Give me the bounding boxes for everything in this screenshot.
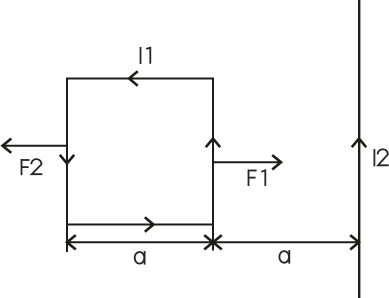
- label F2 (left of loop): [22, 159, 43, 175]
- force arrow F2 (pointing left from loop left side): [4, 145, 67, 147]
- label F1 (right of loop): [249, 170, 266, 187]
- label I1 (above top wire): [141, 47, 151, 64]
- label I2 (right of straight wire): [374, 149, 388, 166]
- dimension arrowhead middle pointing right (at x=213): [204, 235, 213, 249]
- dimension arrowhead right (pointing right at x=359): [350, 235, 359, 249]
- wire: square loop (current loop I1): [67, 79, 213, 225]
- wire: straight conductor I2 (vertical, full height): [358, 0, 360, 298]
- force arrow F1 (pointing right from loop right side): [213, 161, 280, 163]
- current arrow on right wire (pointing up): [206, 139, 220, 148]
- label a (left dimension span): [135, 251, 145, 265]
- current arrow on straight wire I2 (pointing up): [352, 139, 366, 148]
- current arrow on bottom wire (pointing right): [145, 217, 154, 231]
- label a (right dimension span): [279, 250, 289, 264]
- current arrow on top wire (pointing left): [129, 71, 138, 85]
- dimension arrowhead left (pointing left at x=67): [67, 235, 76, 249]
- dimension line (bottom, spanning both spans): [67, 241, 359, 243]
- dimension extender line at x=213: [212, 225, 214, 251]
- current arrow on left wire (pointing down): [60, 155, 74, 164]
- dimension extender line at x=67: [66, 225, 68, 253]
- dimension arrowhead middle pointing left (at x=213): [213, 235, 222, 249]
